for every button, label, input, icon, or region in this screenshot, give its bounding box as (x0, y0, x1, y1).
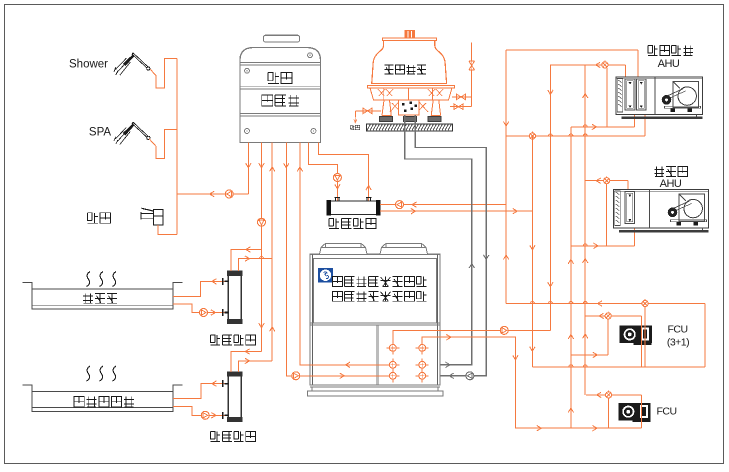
wire hx out top (380, 204, 506, 206)
arrow V4a (568, 259, 573, 264)
pool swim label (74, 397, 134, 407)
arrow FCU2 supply (597, 392, 602, 397)
valve FCU1 outer (642, 299, 648, 307)
cw return arrow2 (446, 362, 451, 367)
wire P4 to unit pump line (286, 143, 310, 376)
arrow pool2 supply (212, 381, 217, 386)
tower drain arrowhead (354, 117, 357, 123)
arrow unit out2d (593, 426, 598, 431)
bump ex1 B (260, 257, 264, 259)
ex1 label (211, 335, 256, 345)
tower basin drain valve (355, 108, 381, 117)
pump pool2 (201, 411, 209, 419)
port valve at 422.2,364.8 (416, 358, 429, 371)
wire V4 riser (570, 127, 572, 428)
arrow V2a (530, 245, 535, 250)
tower spray left (378, 89, 393, 96)
unit fan 1 (320, 243, 368, 254)
FCU1 label (667, 324, 687, 336)
tank label line2 (262, 95, 299, 106)
pump P2 (258, 218, 266, 226)
arrow hx bottom (411, 209, 416, 214)
wire ex2 out B (239, 361, 273, 372)
wire spa trap (149, 130, 177, 159)
tower makeup line low (450, 104, 472, 110)
wire FCU1 loop right (704, 304, 706, 367)
cw supply arrow2 (449, 373, 454, 378)
hx end caps (327, 201, 380, 215)
AHU1 label2 (658, 58, 680, 70)
wire V1 riser (505, 50, 507, 303)
bumps footer (569, 365, 587, 367)
tower makeup globe valve (468, 61, 475, 70)
tower rim (368, 86, 455, 88)
cw return arrow (469, 264, 474, 269)
FCU2 unit (618, 403, 650, 422)
arrow P3a (270, 167, 275, 172)
arrow P2b (259, 323, 264, 328)
wire ex2 in A (231, 352, 262, 372)
svg-text:SPA: SPA (89, 127, 111, 139)
arrow V3b (548, 282, 553, 287)
arrow pool1 return (211, 310, 216, 315)
cw supply arrow (484, 255, 489, 260)
wire FCU1 outer drop (644, 307, 646, 367)
tower label (385, 65, 426, 74)
wire ex1 in A (231, 250, 262, 272)
tank bolt 4 (311, 129, 316, 134)
unit divider (376, 325, 378, 385)
arrow ex1 A (246, 247, 251, 252)
arrow V2b (530, 347, 535, 352)
tank band 2 (240, 86, 321, 89)
wire FCU2 drop (641, 395, 643, 428)
wire P3 riser-B (271, 143, 273, 361)
tower makeup line high (452, 94, 472, 100)
wire ahu return header (506, 135, 645, 137)
wire V5 riser (584, 65, 586, 395)
wire pool2 return (173, 407, 226, 416)
arrow ex2 A (245, 349, 250, 354)
label SPA (89, 127, 111, 139)
wire AHU2 return line (571, 245, 635, 247)
tank label line1 (268, 73, 292, 84)
wire FCU1 inner supply (585, 315, 641, 317)
unit mid band (310, 323, 440, 325)
unit bottom band (310, 385, 440, 387)
wire hx out bottom (380, 210, 532, 212)
arrow ahu1 supply (596, 62, 601, 67)
arrow pool1 supply (212, 279, 217, 284)
wire FCU1 bypass (607, 319, 609, 355)
wire unit row3 left (310, 375, 386, 377)
wire coil2 return drop (644, 111, 646, 136)
tower makeup riser (471, 43, 473, 107)
arrow ex2 B (245, 358, 250, 363)
wire P1 tank to dhw (247, 143, 249, 195)
wire P6 to hx pump (309, 143, 338, 202)
unit logo (318, 268, 333, 283)
wire AHU2 coil supply drop (627, 181, 629, 198)
wire FCU2 supply (586, 394, 642, 396)
pool swim (23, 385, 183, 412)
arrow P3b (270, 327, 275, 332)
hx shell (327, 201, 380, 214)
arrow P6 (335, 184, 340, 189)
valve FCU1 inner (605, 311, 611, 319)
tower sump (399, 100, 420, 115)
pump P-dhw (225, 190, 233, 198)
tank bolt 1 (245, 68, 250, 73)
arrow V4b (568, 334, 573, 339)
AHU1 unit (616, 77, 703, 118)
unit skid (308, 387, 444, 396)
shower icon (114, 53, 150, 75)
arrow V5c (583, 334, 588, 339)
tank body (240, 48, 321, 143)
wire AHU2 bypass (606, 184, 608, 246)
arrow P7 (366, 186, 371, 191)
tower sump bolts (402, 102, 417, 113)
steam sauna (87, 272, 117, 287)
label Shower (69, 59, 108, 71)
arrow P4 (284, 163, 289, 168)
wire FCU2 bypass (608, 398, 610, 428)
pump pool1 (200, 309, 208, 317)
arrow pool2 return (211, 413, 216, 418)
arrow AHU2 supply (596, 178, 601, 183)
arrow row2 (346, 362, 351, 367)
wire V3 riser (550, 65, 625, 331)
wire ex1 out B (239, 259, 273, 272)
tower basin (370, 88, 452, 100)
tower basin ribs (384, 88, 433, 100)
tower mount block 3 (428, 116, 441, 121)
hx label (329, 218, 376, 228)
cw return pipe (405, 115, 472, 365)
wire V2 riser (531, 136, 533, 367)
wire unit out 2 (422, 337, 641, 428)
bumps header (548, 134, 587, 136)
steam swim (87, 366, 117, 381)
wire FCU1 supply header (506, 303, 705, 305)
arrow V5a (583, 94, 588, 99)
wire unit row2 left (310, 364, 386, 366)
arrow FCU1 lower (593, 352, 598, 357)
tower drain label (350, 125, 359, 129)
pool sauna (23, 283, 183, 310)
tank bolt 3 (245, 129, 250, 134)
arrow FCU1 inner (599, 313, 604, 318)
tank cap (264, 35, 300, 42)
tank bolt 2 (308, 53, 313, 58)
arrow V3a (548, 90, 553, 95)
arrow P1 (246, 163, 251, 168)
bumps FCU1 header (530, 302, 587, 304)
faucet icon (141, 208, 163, 225)
pump P4 (292, 372, 300, 380)
wire pool1 return (173, 304, 226, 312)
port valve at 392.8,364.8 (386, 358, 399, 371)
arrow hx top (412, 202, 417, 207)
FCU1 label2 (667, 336, 689, 348)
AHU2 unit (614, 190, 709, 232)
wire coil1 return line (571, 126, 634, 128)
arrow unit out2c (537, 426, 542, 431)
arrow P2a (259, 163, 264, 168)
arrow coil1 line (592, 124, 597, 129)
wire P2 riser-A (261, 143, 263, 352)
tower motor cap (405, 31, 414, 38)
wire riser to tank line (177, 193, 249, 195)
tower leg right (431, 100, 440, 116)
wire unit out top (393, 330, 551, 344)
hx stubs (335, 198, 372, 202)
svg-text:AHU: AHU (660, 178, 682, 190)
AHU2 label2 (660, 178, 682, 190)
wire coil2 supply drop (637, 50, 639, 84)
svg-text:FCU: FCU (656, 406, 676, 418)
wire P5 to unit (300, 143, 310, 365)
unit name line1 (332, 277, 426, 287)
wire shower trap (150, 58, 177, 88)
wire FCU return footer (532, 366, 705, 368)
tank band 1 (240, 62, 321, 65)
wire AHU2 supply line (585, 180, 628, 182)
pump hx (396, 201, 404, 209)
pump P6 (333, 174, 341, 182)
port valve at 422.2,375.8 (416, 369, 429, 382)
arrow unit out2b (513, 355, 518, 360)
valve AHU1 (602, 60, 608, 68)
cw pump (466, 372, 474, 380)
ex2 stubs (223, 380, 229, 419)
wire pool2 supply (173, 384, 226, 399)
label hot-water tap (87, 213, 110, 224)
arrow hx bottom 2 (513, 209, 518, 214)
valve FCU2 (606, 390, 612, 398)
FCU1 unit (620, 326, 652, 345)
pool sauna label (83, 293, 117, 303)
wire AHU2 coil drop (634, 222, 636, 246)
wire P7 hx return (318, 143, 368, 202)
port valve at 392.8,347.9 (386, 341, 399, 354)
cw supply pipe (415, 115, 486, 376)
svg-text:Shower: Shower (69, 59, 108, 71)
valve AHU2 (604, 176, 610, 184)
ex2 label (211, 432, 256, 442)
port valve at 392.8,375.8 (386, 369, 399, 382)
valve header (529, 131, 535, 139)
bump coil1 line (583, 125, 587, 127)
unit inner wall lines (312, 254, 437, 385)
arrow on tank line (210, 191, 215, 196)
wire domestic riser (176, 58, 178, 234)
arrow P5 (297, 167, 302, 172)
wire FCU1 lower line (571, 354, 608, 356)
svg-text:AHU: AHU (658, 58, 680, 70)
exchanger ex1 (228, 271, 242, 323)
arrow V4c (568, 408, 573, 413)
pump unit out (500, 326, 508, 334)
arrow AHU2 return (594, 243, 599, 248)
arrow V1a (503, 122, 508, 127)
arrow V1b (503, 255, 508, 260)
tower spray right (428, 89, 443, 96)
tower leg left (382, 100, 391, 116)
wire coil1 supply drop (624, 65, 626, 84)
unit text panel (314, 259, 437, 323)
unit fan 2 (380, 243, 428, 254)
unit name line2 (332, 291, 426, 301)
port valve at 422.2,347.9 (416, 341, 429, 354)
tower mount block 1 (380, 116, 393, 121)
arrow V5b (583, 259, 588, 264)
tower lid (382, 38, 436, 41)
arrow unit out2a (446, 335, 451, 340)
unit outer box (310, 254, 440, 385)
tower body (372, 41, 447, 84)
tower foundation (367, 124, 453, 131)
tower braces (390, 102, 428, 112)
wire coil1 return drop (633, 111, 635, 127)
tank band 3 (240, 113, 321, 116)
spa icon (114, 123, 150, 145)
exchanger ex2 (228, 372, 242, 422)
AHU2 label1 (654, 167, 687, 177)
AHU1 label1 (648, 46, 693, 56)
wire pool1 supply (173, 281, 226, 296)
wire faucet drain (158, 225, 177, 234)
bump AHU2 return (583, 244, 587, 246)
ex1 stubs (223, 278, 229, 316)
svg-text:FCU: FCU (667, 324, 687, 336)
wire AHU1 bypass (606, 68, 608, 127)
arrow row3 (340, 373, 345, 378)
arrow ex1 B (245, 256, 250, 261)
svg-text:(3+1): (3+1) (667, 336, 689, 348)
tower mount block 2 (404, 116, 417, 121)
wire FCU1 inner drop (641, 316, 643, 367)
arrow FCU1 header (598, 301, 603, 306)
wire V1 top feed (506, 49, 638, 51)
FCU2 label (656, 406, 676, 418)
